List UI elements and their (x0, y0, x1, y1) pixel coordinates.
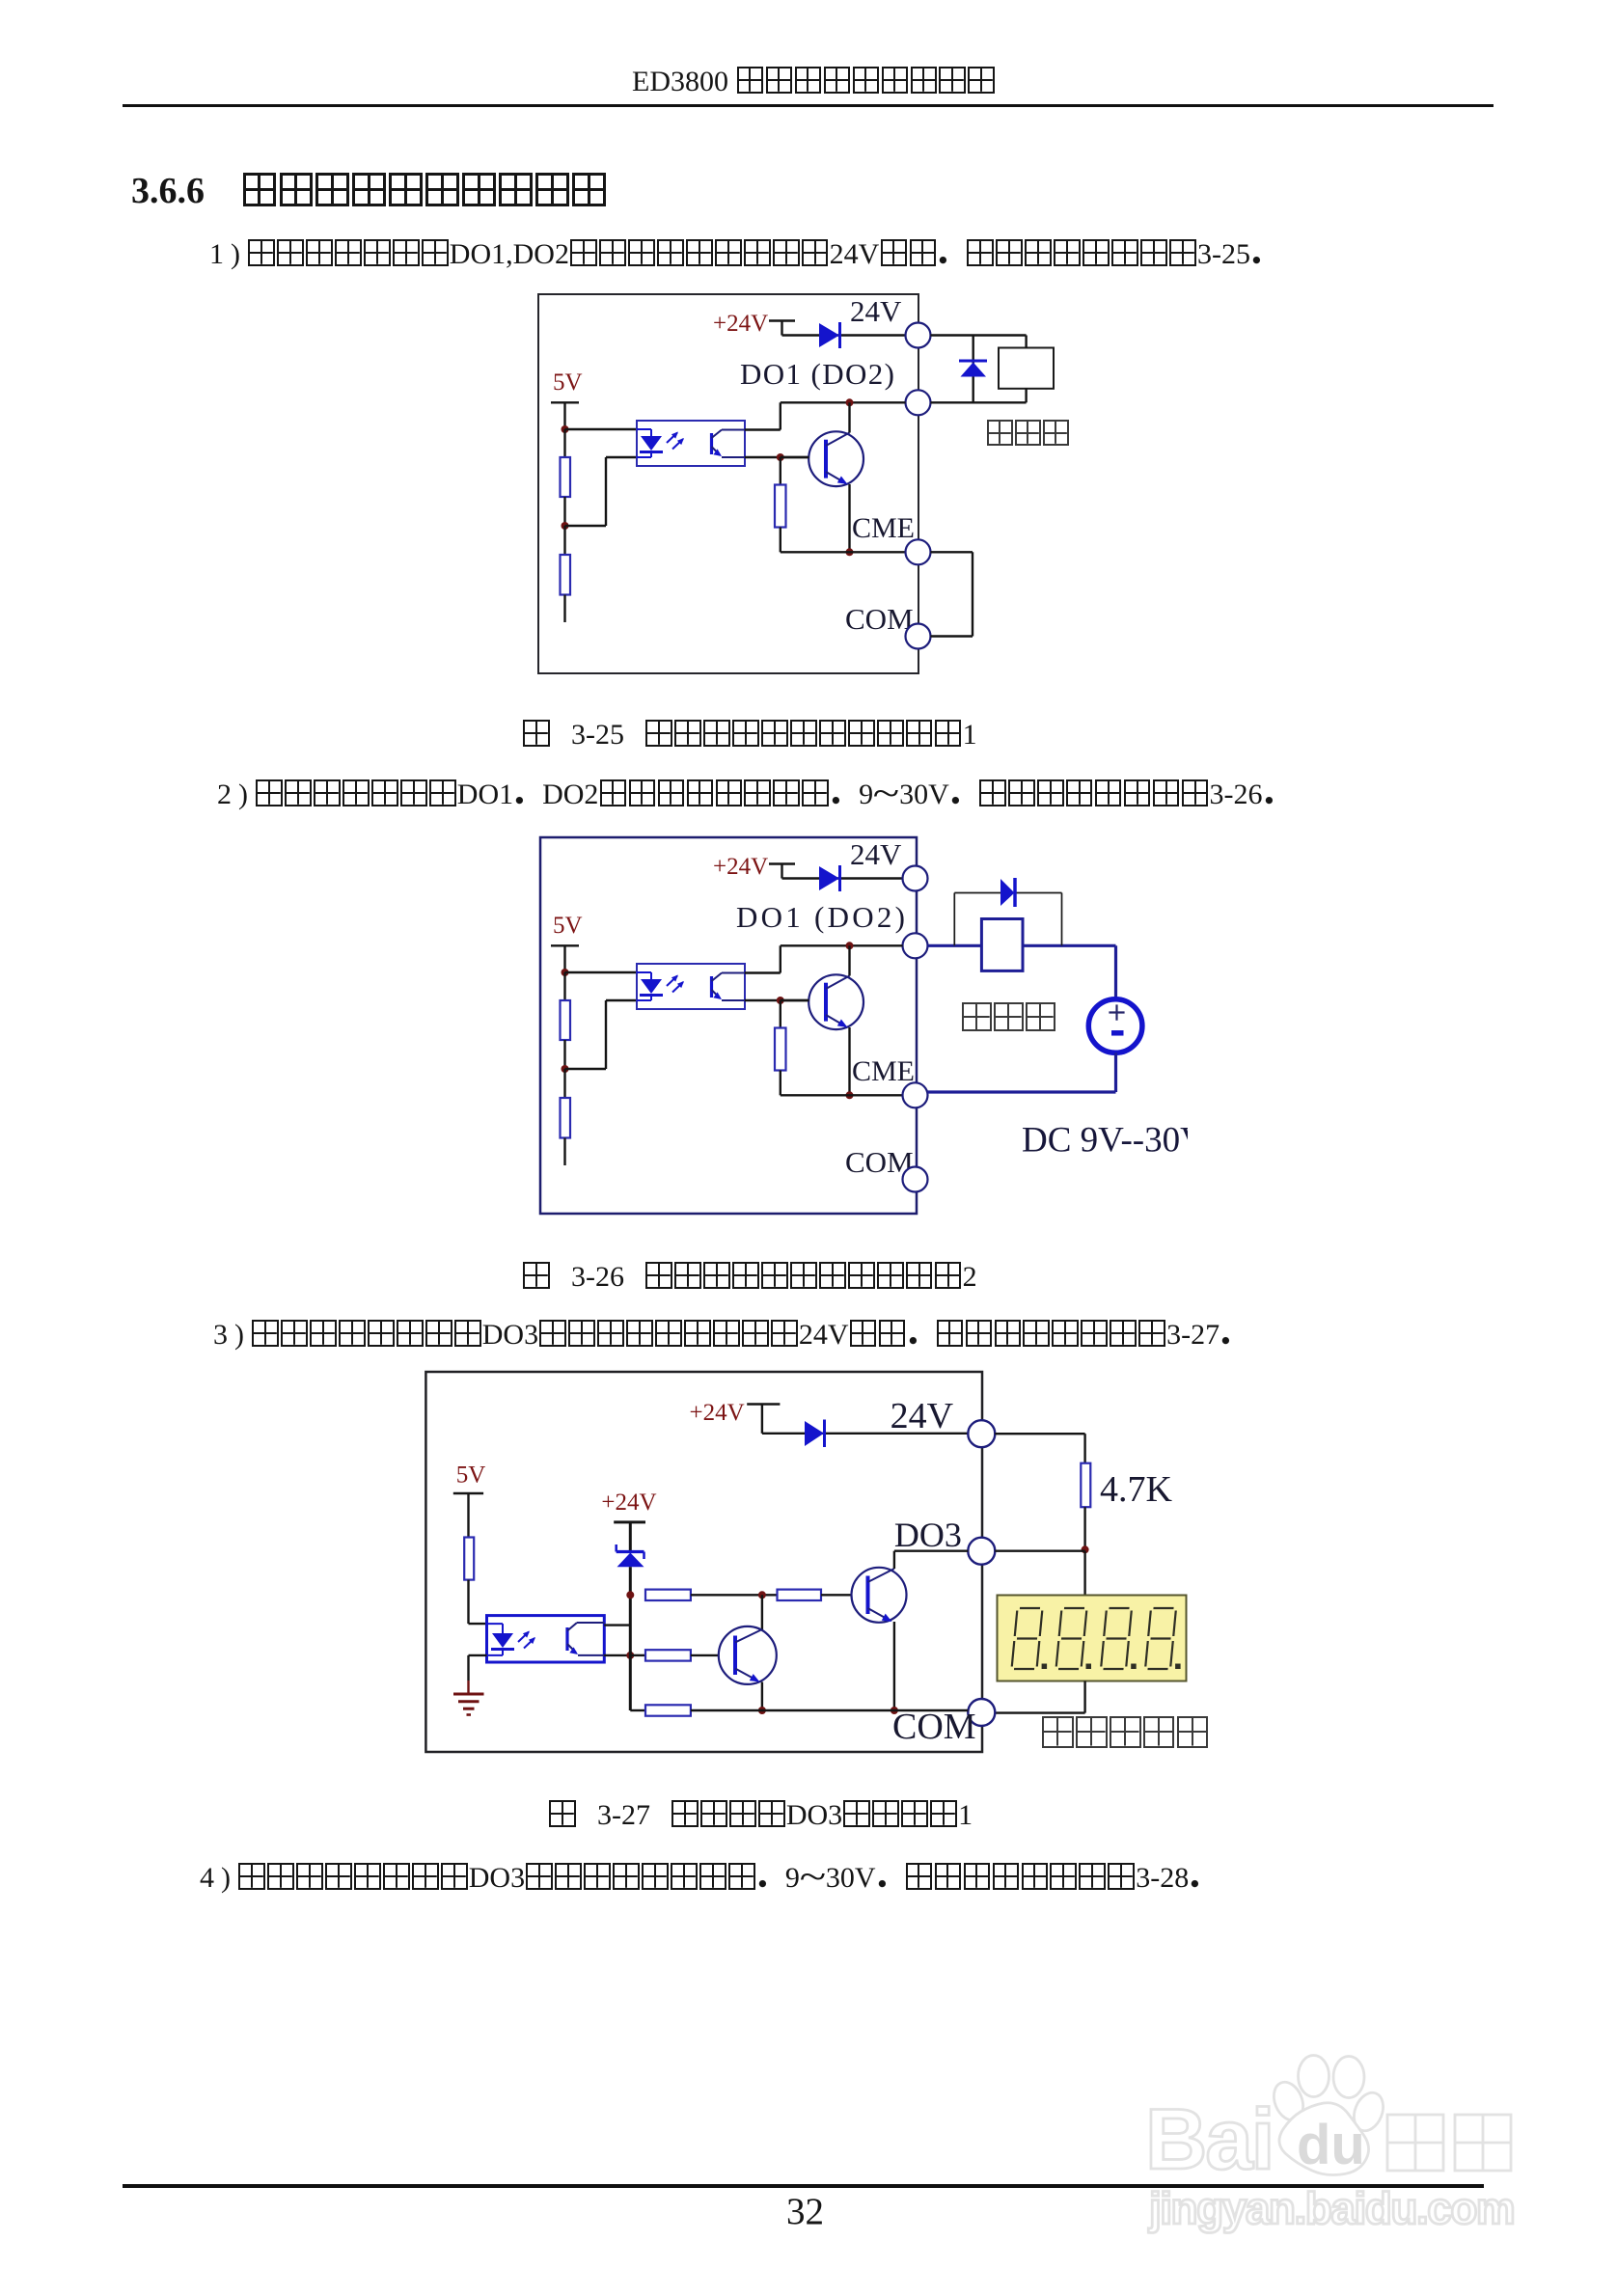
svg-text:CME: CME (852, 512, 915, 544)
svg-text:24V: 24V (850, 294, 902, 328)
svg-text:+24V: +24V (713, 311, 768, 337)
svg-text:DO1 (DO2): DO1 (DO2) (740, 357, 894, 391)
svg-text:DO3: DO3 (894, 1516, 962, 1554)
svg-text:jingyan.baidu.com: jingyan.baidu.com (1148, 2183, 1514, 2233)
svg-text:du: du (1297, 2114, 1365, 2176)
svg-text:DO1 (DO2): DO1 (DO2) (736, 900, 905, 934)
svg-text:24V: 24V (891, 1396, 954, 1436)
svg-text:DC 9V--30V: DC 9V--30V (1022, 1121, 1206, 1161)
svg-text:+24V: +24V (713, 854, 768, 880)
svg-text:5V: 5V (456, 1462, 486, 1489)
svg-text:5V: 5V (553, 913, 583, 939)
svg-text:COM: COM (845, 602, 914, 636)
svg-text:Bai: Bai (1145, 2091, 1274, 2187)
svg-text:5V: 5V (553, 369, 583, 396)
svg-text:+24V: +24V (601, 1490, 656, 1516)
svg-text:CME: CME (852, 1055, 915, 1087)
svg-text:+24V: +24V (690, 1400, 745, 1426)
svg-text:4.7K: 4.7K (1100, 1469, 1173, 1510)
svg-text:COM: COM (892, 1707, 976, 1747)
svg-text:24V: 24V (850, 837, 902, 871)
